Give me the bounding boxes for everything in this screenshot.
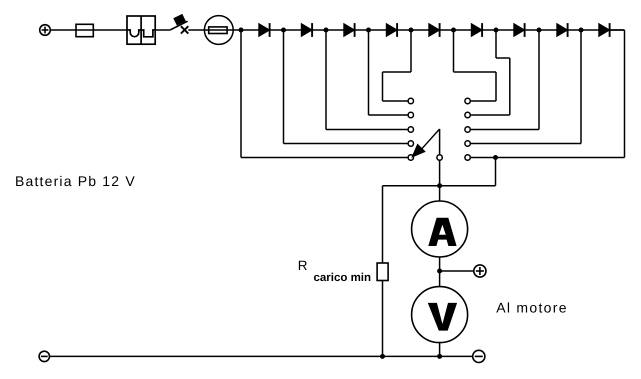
indicator lamp / fuse monitor: [204, 16, 233, 45]
node 2 (junction dot): [281, 28, 286, 33]
connector X1 (plug and socket): [127, 16, 155, 44]
wire from lamp to node 1: [233, 29, 241, 31]
wire node 8 to diode D8: [539, 29, 557, 31]
selector contact L5: [408, 155, 413, 160]
wire from connector to switch S1: [155, 29, 170, 31]
wire diode D4 to next node: [397, 29, 411, 31]
selector pole contact: [437, 155, 442, 160]
svg-text:R: R: [298, 258, 308, 273]
node 6 (junction dot): [451, 28, 456, 33]
resistor R carico min: [377, 263, 388, 281]
selector contact R5: [465, 155, 470, 160]
selector contact L2: [408, 112, 413, 117]
wire node 1 to diode D1: [241, 29, 259, 31]
label R (resistor designator): [298, 258, 308, 273]
wire node 3 to contact L3: [326, 30, 408, 130]
selector contact L1: [408, 98, 413, 103]
wire node 5 to diode D5: [411, 29, 429, 31]
node 8 (junction dot): [537, 28, 542, 33]
node 3 (junction dot): [324, 28, 329, 33]
wire node 8 to contact R3: [470, 30, 539, 130]
wire node 9 to contact R4: [470, 30, 581, 144]
node 9 (junction dot): [579, 28, 584, 33]
diode D4: [386, 23, 397, 37]
wire diode D6 to next node: [482, 29, 496, 31]
svg-text:Al motore: Al motore: [496, 300, 568, 316]
wire node 6 to diode D6: [454, 29, 472, 31]
voltmeter V1: [412, 287, 468, 343]
selector pole wire: [439, 129, 441, 186]
wire node B down to bus: [495, 158, 497, 186]
switch S1 contact cross (x): [181, 26, 188, 33]
bus wire to node C: [383, 185, 496, 187]
bottom rail wire: [50, 355, 473, 357]
output terminal - (al motore): [473, 350, 485, 362]
wire diode D1 to next node: [270, 29, 284, 31]
wire diode D8 to next node: [568, 29, 581, 31]
wire from + terminal to fuse F1: [50, 29, 127, 31]
battery positive terminal (+): [40, 25, 51, 36]
wire node 2 to contact L4: [284, 30, 409, 144]
wire node 4 to contact L2: [369, 30, 409, 115]
wire diode D2 to next node: [312, 29, 326, 31]
selector contact R3: [465, 127, 470, 132]
wire node 3 to diode D3: [326, 29, 344, 31]
node F (voltmeter to rail dot): [437, 354, 442, 359]
svg-text:Batteria Pb 12 V: Batteria Pb 12 V: [15, 173, 136, 189]
switch S1 actuator flag: [174, 14, 185, 24]
wire node 1 to contact L5: [241, 30, 408, 158]
wire resistor to bottom rail: [382, 281, 384, 357]
node 4 (junction dot): [366, 28, 371, 33]
wire node C to ammeter: [439, 186, 441, 202]
wire diode D5 to next node: [440, 29, 454, 31]
wire node 5 to contact L1: [383, 30, 412, 101]
node D (junction dot between meters): [437, 269, 442, 274]
wire ammeter to voltmeter: [439, 257, 441, 287]
diode D9: [599, 23, 610, 37]
switch S1 blade: [170, 21, 187, 30]
diode D3: [344, 23, 355, 37]
selector contact R2: [465, 112, 470, 117]
diode D8: [557, 23, 568, 37]
fuse F1: [76, 24, 93, 36]
selector contact L3: [408, 127, 413, 132]
wire diode D3 to next node: [355, 29, 369, 31]
wire node D to + output terminal: [440, 270, 474, 272]
wire node 7 to contact R2: [470, 30, 510, 115]
selector wiper arm with arrow: [412, 129, 439, 157]
wire node 4 to diode D4: [369, 29, 387, 31]
diode D2: [301, 23, 312, 37]
wire bus to resistor R carico min: [382, 186, 384, 263]
label Batteria Pb 12 V: [15, 173, 136, 189]
node 7 (junction dot): [494, 28, 499, 33]
wire diode D9 to next node: [610, 29, 625, 31]
label carico min (subscript): [314, 272, 372, 284]
output terminal + (al motore): [474, 265, 486, 277]
ammeter A1: [412, 201, 468, 257]
diode D1: [259, 23, 270, 37]
node 5 (junction dot): [409, 28, 414, 33]
wire node 7 to diode D7: [496, 29, 514, 31]
wire node 6 to contact R1: [454, 30, 497, 101]
diode D5: [429, 23, 440, 37]
node 1 (junction dot): [239, 28, 244, 33]
selector contact R4: [465, 141, 470, 146]
selector contact R1: [465, 98, 470, 103]
node C (junction dot): [437, 183, 442, 188]
wire diode D9 output to contact R5: [470, 30, 624, 158]
wire diode D7 to next node: [525, 29, 539, 31]
svg-text:carico min: carico min: [314, 272, 372, 284]
label Al motore: [496, 300, 568, 316]
diode D6: [471, 23, 482, 37]
wire voltmeter to bottom rail: [439, 343, 441, 357]
selector contact L4: [408, 141, 413, 146]
wire node 2 to diode D2: [284, 29, 302, 31]
wire node 9 to diode D9: [581, 29, 599, 31]
node B (contact R5 branch dot): [493, 155, 498, 160]
diode D7: [514, 23, 525, 37]
node E (resistor to rail dot): [380, 354, 385, 359]
battery negative terminal (-): [39, 351, 49, 361]
wire from switch to lamp: [188, 29, 204, 31]
